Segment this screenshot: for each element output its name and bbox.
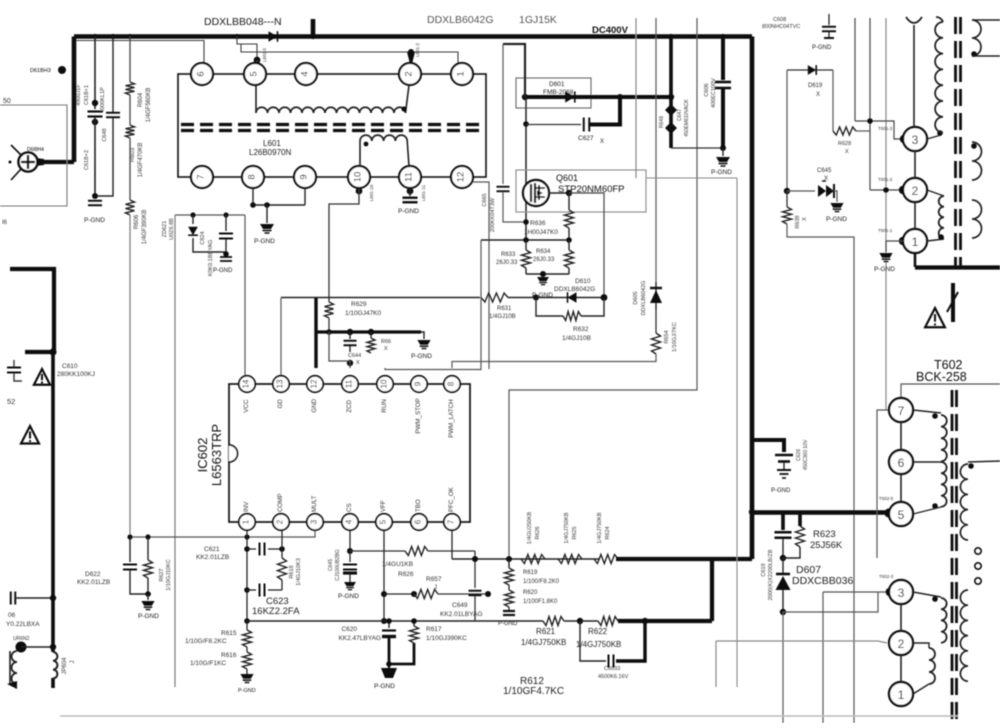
- ground sense: [537, 277, 549, 281]
- svg-text:5: 5: [898, 508, 905, 522]
- T602 secondary lower: [960, 590, 968, 681]
- T602 pin 3: [886, 588, 895, 597]
- resistor R639: [786, 191, 788, 207]
- svg-text:4: 4: [345, 519, 354, 524]
- svg-text:INV: INV: [243, 501, 250, 512]
- capacitor C610 with caution: [7, 367, 21, 369]
- resistor R636: [568, 193, 570, 210]
- svg-text:R648: R648: [659, 116, 665, 128]
- svg-text:6: 6: [898, 456, 905, 470]
- T601 pin 1: [899, 237, 907, 245]
- wire gray rail x636: [635, 18, 637, 178]
- node UR6N2 terminal: [16, 642, 27, 653]
- capacitor C649: [474, 551, 476, 588]
- svg-text:R626: R626: [535, 526, 541, 539]
- IC602 pin 10 RUN: [377, 376, 393, 392]
- svg-text:T601-2: T601-2: [878, 177, 893, 182]
- svg-text:CJ100UB2BG: CJ100UB2BG: [335, 549, 341, 581]
- diode D605: [655, 282, 657, 310]
- wire PFC_OK feedback route: [509, 18, 697, 568]
- svg-text:1/10G/F8.2KC: 1/10G/F8.2KC: [185, 638, 227, 645]
- capacitor C645 to ground: [343, 564, 357, 566]
- IC602 pin 9 PWM_STOP: [411, 376, 427, 392]
- svg-text:1/4GJ10B: 1/4GJ10B: [562, 335, 591, 342]
- svg-text:1: 1: [912, 235, 919, 249]
- L601 pin 1: [451, 63, 473, 85]
- wire feedback row y559: [452, 558, 600, 560]
- wire GD rail to IC pin 13: [280, 298, 282, 377]
- svg-text:R657: R657: [426, 576, 442, 583]
- svg-text:R639: R639: [795, 215, 801, 228]
- svg-text:C606: C606: [704, 83, 710, 96]
- ground R620: [508, 607, 510, 610]
- svg-text:50: 50: [3, 98, 11, 105]
- resistor R633: [525, 240, 527, 250]
- svg-text:ZD621: ZD621: [162, 221, 168, 238]
- svg-text:1/100/F8.2K0: 1/100/F8.2K0: [523, 579, 560, 585]
- L601 pin 5: [244, 63, 266, 85]
- svg-text:L601-11: L601-11: [421, 184, 426, 201]
- capacitor line to x53 node: [10, 592, 12, 605]
- wire D619 left rail: [786, 70, 788, 191]
- node snubber junctions: [522, 94, 528, 100]
- svg-text:KK2.01LZB: KK2.01LZB: [77, 579, 110, 586]
- svg-text:4900J1F: 4900J1F: [76, 84, 82, 106]
- svg-text:26J0.33: 26J0.33: [533, 257, 555, 263]
- ground C644 net: [421, 332, 424, 339]
- svg-text:Y0.22LBXA: Y0.22LBXA: [6, 621, 40, 628]
- resistor R618: [278, 558, 287, 580]
- wire lamp to bus drop: [36, 158, 44, 166]
- L601 pin 2: [399, 63, 421, 85]
- resistor R616: [246, 647, 248, 652]
- svg-text:1H00J47K0: 1H00J47K0: [524, 229, 558, 236]
- svg-text:VFF: VFF: [380, 500, 387, 512]
- wire feeder to L601 pin 6: [76, 41, 204, 64]
- T601 primary winding: [927, 135, 941, 139]
- capacitor C6033 loop: [580, 621, 606, 661]
- svg-text:C626: C626: [796, 449, 802, 461]
- resistor R626b: [405, 547, 428, 556]
- svg-text:X: X: [600, 139, 604, 145]
- svg-text:7: 7: [447, 519, 456, 524]
- svg-text:C6033: C6033: [604, 666, 620, 672]
- svg-text:8: 8: [247, 174, 258, 179]
- svg-text:T601-3: T601-3: [878, 126, 893, 131]
- wire feeder to L601 pins 5/2/1: [237, 37, 257, 61]
- IC602 pin 8 PWM_LATCH: [444, 376, 460, 392]
- IC602 pin 12 GND: [307, 376, 323, 392]
- svg-text:COMP: COMP: [277, 493, 284, 512]
- capacitor C624: [225, 215, 227, 231]
- svg-text:R604: R604: [138, 92, 144, 107]
- wire main DC bus: [74, 34, 752, 39]
- svg-text:1/4GF470KB: 1/4GF470KB: [138, 143, 144, 178]
- svg-text:Q601: Q601: [556, 173, 578, 183]
- svg-text:1: 1: [242, 519, 251, 524]
- svg-text:1/10GJ/7KC: 1/10GJ/7KC: [672, 322, 678, 352]
- resistor R625: [558, 555, 582, 564]
- IC602 pin 2 COMP: [273, 514, 289, 530]
- svg-text:P-GND: P-GND: [254, 238, 275, 245]
- T602 pin 6: [889, 450, 913, 474]
- wire C620/R617 ground loop: [389, 638, 414, 664]
- svg-text:2000(K)X2200LB/ZB: 2000(K)X2200LB/ZB: [768, 549, 774, 600]
- L601 pin 4: [295, 63, 317, 85]
- svg-text:J: J: [70, 661, 76, 664]
- svg-text:L601: L601: [263, 139, 281, 148]
- svg-text:D601: D601: [549, 81, 565, 88]
- capacitor C618-2 to ground: [88, 200, 102, 202]
- ground C606: [722, 148, 724, 156]
- svg-text:L601-10: L601-10: [369, 184, 374, 201]
- svg-text:9: 9: [299, 174, 310, 179]
- inductor JP604: [53, 652, 57, 678]
- resistor R666: [370, 332, 372, 338]
- svg-text:200KK04T3W: 200KK04T3W: [490, 197, 496, 232]
- svg-text:52: 52: [7, 397, 15, 406]
- svg-text:R622: R622: [588, 627, 608, 636]
- svg-text:C620: C620: [341, 626, 357, 633]
- svg-text:P-GND: P-GND: [411, 353, 432, 360]
- svg-text:14: 14: [242, 379, 251, 388]
- interconnect symbol 1: [951, 283, 955, 322]
- wire bottom bus y621: [247, 620, 543, 622]
- svg-text:DDXCBB036: DDXCBB036: [792, 575, 853, 587]
- svg-text:4500K6.16V: 4500K6.16V: [598, 674, 629, 680]
- T602 pin 2: [889, 631, 913, 655]
- svg-text:1/4GU1KB: 1/4GU1KB: [382, 561, 413, 568]
- capacitor C606: [721, 37, 725, 81]
- L601 pin 10: [348, 166, 370, 188]
- L601 pin 8: [242, 166, 264, 188]
- wire thick bus to T602 pin5: [752, 510, 889, 515]
- IC602 pin 1 INV: [239, 514, 255, 530]
- ground C645X: [830, 203, 843, 208]
- capacitor C645 X arrestor: [787, 190, 815, 192]
- svg-text:1: 1: [456, 71, 467, 76]
- resistor R617: [413, 621, 415, 626]
- IC602 notch: [229, 445, 238, 462]
- svg-text:X: X: [824, 176, 828, 182]
- box Q601: [516, 170, 646, 212]
- svg-text:280KK100KJ: 280KK100KJ: [57, 371, 95, 378]
- node L601 pin2 terminal: [408, 49, 414, 55]
- L601 pin 9: [294, 166, 316, 188]
- capacitor C644: [349, 332, 351, 339]
- svg-text:13: 13: [276, 379, 285, 388]
- IC602 pin 6 TBO: [411, 514, 427, 530]
- wire D619 right to R628: [832, 70, 834, 131]
- diode D619: [787, 69, 833, 71]
- svg-text:C645: C645: [328, 559, 334, 571]
- wire T601 feeds: [854, 18, 856, 121]
- wire x503 C665 rail: [502, 44, 504, 184]
- resistor R620: [508, 585, 510, 590]
- wire R622 to thick corner: [618, 619, 712, 623]
- wire INV/COMP feed y537: [130, 530, 315, 537]
- node C645X junction: [784, 188, 790, 194]
- svg-text:D605: D605: [633, 291, 639, 304]
- wire INV rail x247: [246, 530, 248, 621]
- diode D601: [565, 91, 575, 102]
- wire page bottom shadow: [60, 715, 958, 717]
- svg-text:P-GND: P-GND: [238, 688, 256, 694]
- svg-text:1/10GJ47K0: 1/10GJ47K0: [345, 310, 382, 317]
- wire bus left drop to input: [72, 37, 77, 163]
- resistor R628: [833, 127, 856, 135]
- svg-text:06: 06: [8, 612, 16, 619]
- wire RUN to gate node x481: [385, 240, 481, 370]
- L601 pin 11: [399, 166, 421, 188]
- T602 core: [951, 390, 954, 723]
- capacitor C618-1: [94, 37, 96, 110]
- svg-text:9: 9: [414, 381, 423, 386]
- IC602 pin 5 VFF: [376, 514, 392, 530]
- wire x823 branch: [823, 591, 887, 593]
- svg-text:800NHC04TVC: 800NHC04TVC: [762, 24, 800, 30]
- svg-text:C608: C608: [773, 17, 786, 23]
- T601 aux winding low: [927, 190, 944, 196]
- svg-text:1/4GU250KB: 1/4GU250KB: [527, 511, 533, 544]
- svg-text:3: 3: [898, 586, 905, 600]
- T601 secondary lower: [972, 142, 982, 180]
- resistor R624: [594, 555, 618, 564]
- svg-text:ZCD: ZCD: [346, 399, 353, 412]
- svg-text:KK2.01LZB: KK2.01LZB: [196, 554, 229, 561]
- wire source node: [481, 239, 569, 241]
- svg-text:C824: C824: [200, 231, 206, 244]
- capacitor C621: [247, 548, 256, 550]
- svg-text:R66: R66: [381, 339, 391, 345]
- T602 pin 1: [889, 682, 913, 706]
- svg-text:4: 4: [300, 71, 311, 76]
- svg-text:450C360 10V: 450C360 10V: [803, 439, 809, 470]
- svg-text:R616: R616: [221, 652, 237, 659]
- capacitor C619: [781, 513, 785, 531]
- svg-text:1/4GJ750KB: 1/4GJ750KB: [564, 512, 570, 544]
- ground R627: [147, 594, 149, 600]
- svg-text:R625: R625: [572, 526, 578, 539]
- svg-text:2: 2: [898, 637, 905, 651]
- svg-text:10: 10: [380, 379, 389, 388]
- svg-text:1/100F1.8K0: 1/100F1.8K0: [523, 599, 558, 605]
- svg-text:C645: C645: [817, 168, 832, 174]
- svg-text:P-GND: P-GND: [826, 216, 847, 223]
- T602 winding 2-1: [929, 648, 935, 684]
- wire mult row y551: [350, 550, 405, 552]
- svg-text:P-GND: P-GND: [812, 45, 832, 51]
- T602 winding 7-6: [913, 410, 941, 413]
- wire T601 bottom thick: [914, 253, 917, 267]
- wire T601 secondary taps: [972, 19, 1000, 21]
- svg-text:PWM_LATCH: PWM_LATCH: [448, 399, 455, 437]
- svg-text:L26B0970N: L26B0970N: [249, 148, 291, 157]
- node aux winding phase dot: [364, 142, 369, 147]
- wire ZCD node: [347, 360, 353, 366]
- svg-text:1/10G/F1KC: 1/10G/F1KC: [190, 660, 226, 667]
- svg-text:5: 5: [249, 71, 260, 76]
- svg-text:P-GND: P-GND: [498, 621, 518, 627]
- wire pin1 to ground: [886, 241, 903, 252]
- svg-text:D619: D619: [808, 83, 823, 89]
- svg-text:2: 2: [912, 184, 919, 198]
- svg-text:TBO: TBO: [415, 499, 422, 512]
- svg-text:PWM_STOP: PWM_STOP: [415, 398, 422, 433]
- svg-text:X: X: [802, 217, 808, 221]
- svg-text:C621: C621: [204, 546, 220, 553]
- svg-text:C619: C619: [761, 563, 767, 576]
- svg-text:D6I8H4: D6I8H4: [27, 147, 44, 153]
- T602 secondary top: [968, 461, 1000, 462]
- resistor R654: [655, 310, 657, 333]
- wire T602 top frame: [901, 384, 1000, 398]
- diode D610: [536, 297, 604, 299]
- wire gate drive: [281, 297, 480, 299]
- transformer L601 body: [178, 74, 486, 177]
- zener ZD621: [192, 215, 194, 224]
- node T601 phase dot: [938, 234, 944, 240]
- wire PWM_LATCH to D605: [452, 354, 656, 368]
- L601 core: [181, 123, 484, 126]
- L601 pin 12: [451, 166, 473, 188]
- svg-text:C647: C647: [677, 109, 683, 121]
- svg-text:R618: R618: [289, 565, 295, 578]
- T602 pin 5: [889, 502, 913, 526]
- svg-text:C648: C648: [102, 128, 108, 141]
- T601 pin 2: [870, 189, 902, 191]
- IC602 pin 14 VCC: [239, 376, 255, 392]
- wire mains rail x53: [51, 352, 55, 652]
- svg-text:C610: C610: [62, 363, 78, 370]
- svg-text:IC602: IC602: [195, 438, 210, 473]
- svg-text:C644: C644: [348, 353, 361, 359]
- svg-text:26J0.33: 26J0.33: [496, 260, 518, 266]
- L601 primary winding: [255, 85, 257, 113]
- T601 secondary lower 2: [972, 200, 982, 238]
- svg-text:R627: R627: [159, 568, 165, 581]
- svg-text:D61BH3: D61BH3: [30, 68, 51, 74]
- capacitor C620: [388, 621, 390, 628]
- resistor R622: [580, 620, 598, 622]
- wire VCC tap: [175, 214, 245, 216]
- resistor R626: [521, 555, 545, 564]
- svg-text:25J56K: 25J56K: [810, 540, 843, 551]
- svg-text:T602-5: T602-5: [879, 496, 894, 501]
- wire Q601 drain to snubber: [548, 192, 569, 194]
- svg-text:P-GND: P-GND: [398, 208, 419, 215]
- ground C620: [388, 664, 390, 668]
- svg-text:DDXLB6042G: DDXLB6042G: [427, 14, 494, 26]
- svg-text:1/4GJ10B: 1/4GJ10B: [489, 314, 516, 320]
- svg-text:R621: R621: [536, 627, 556, 636]
- svg-text:R619: R619: [523, 570, 538, 576]
- diode D605 rail: [655, 18, 657, 282]
- ground L601 pins 8/9: [260, 224, 274, 229]
- IC602 pin 7 PFC_OK: [444, 514, 460, 530]
- wire T601 pin3 link: [855, 121, 901, 139]
- wire CS rail / C645: [349, 530, 351, 551]
- svg-text:P-GND: P-GND: [374, 683, 395, 690]
- svg-text:JP604: JP604: [62, 657, 68, 675]
- wire gate rail x526: [525, 97, 527, 240]
- node bus junctions: [92, 34, 97, 39]
- wire bus top stub: [311, 19, 316, 37]
- svg-text:BCK-258: BCK-258: [916, 370, 967, 384]
- svg-text:R628: R628: [838, 141, 851, 147]
- node C618/C648 join: [92, 193, 98, 199]
- svg-text:J: J: [434, 585, 437, 591]
- svg-text:P-GND: P-GND: [874, 266, 895, 273]
- svg-text:C649: C649: [452, 602, 468, 609]
- capacitor C665: [497, 186, 510, 188]
- wire C647 to C606 gnd link: [671, 147, 723, 149]
- diode D607: [782, 558, 784, 573]
- wire T602 pin7 left: [877, 410, 889, 558]
- node pin5 terminal: [884, 508, 893, 517]
- svg-text:D610: D610: [575, 278, 591, 285]
- svg-text:8: 8: [447, 381, 456, 386]
- capacitor C626: [775, 454, 793, 457]
- svg-text:1/4GJ750KB: 1/4GJ750KB: [597, 512, 603, 544]
- resistor R629: [325, 302, 334, 318]
- svg-text:R632: R632: [573, 326, 589, 333]
- wire thick feedback to bus: [616, 557, 752, 561]
- resistor R631: [481, 293, 508, 302]
- wire thick bus corner down: [750, 510, 755, 559]
- svg-text:10: 10: [353, 172, 364, 183]
- T601 pin 3: [900, 135, 908, 143]
- svg-text:R603: R603: [130, 147, 136, 162]
- svg-text:2: 2: [276, 519, 285, 524]
- svg-text:C61B+1: C61B+1: [84, 85, 90, 105]
- svg-text:R615: R615: [221, 630, 237, 637]
- diode D608 on bus: [269, 31, 278, 42]
- svg-text:R636: R636: [530, 220, 546, 227]
- resistor R619: [508, 559, 510, 568]
- wire C626 branch: [752, 440, 784, 452]
- svg-text:D622: D622: [85, 571, 101, 578]
- svg-text:1/10GF4.7KC: 1/10GF4.7KC: [503, 686, 564, 697]
- transistor Q601 MOSFET: [523, 180, 549, 206]
- svg-text:2: 2: [404, 71, 415, 76]
- IC602 pin 3 MULT: [307, 514, 323, 530]
- resistor R627: [147, 537, 149, 560]
- wire C618 lower: [94, 117, 96, 196]
- box section frame: [646, 177, 737, 179]
- warning triangle T601: [925, 308, 945, 327]
- svg-text:MULT: MULT: [311, 495, 318, 512]
- svg-text:P-GND: P-GND: [711, 169, 732, 176]
- capacitor C623: [247, 589, 256, 591]
- svg-text:DDXLBB048---N: DDXLBB048---N: [204, 16, 282, 28]
- svg-text:1: 1: [898, 688, 905, 702]
- wire rail x130: [129, 37, 131, 83]
- svg-text:L6563TRP: L6563TRP: [209, 424, 224, 486]
- svg-text:450EM610VACK: 450EM610VACK: [684, 99, 690, 137]
- wire L601 pin12 right: [473, 182, 489, 369]
- svg-text:5: 5: [379, 519, 388, 524]
- resistor R615: [246, 621, 248, 630]
- box D601: [516, 78, 591, 108]
- svg-text:GD: GD: [277, 399, 284, 409]
- wire COMP rail: [281, 530, 283, 558]
- svg-text:GND: GND: [311, 398, 318, 412]
- svg-text:12: 12: [456, 172, 467, 183]
- L601 pin 6: [191, 63, 213, 85]
- capacitor D622: [129, 537, 131, 562]
- wire T602 pin column: [900, 422, 902, 450]
